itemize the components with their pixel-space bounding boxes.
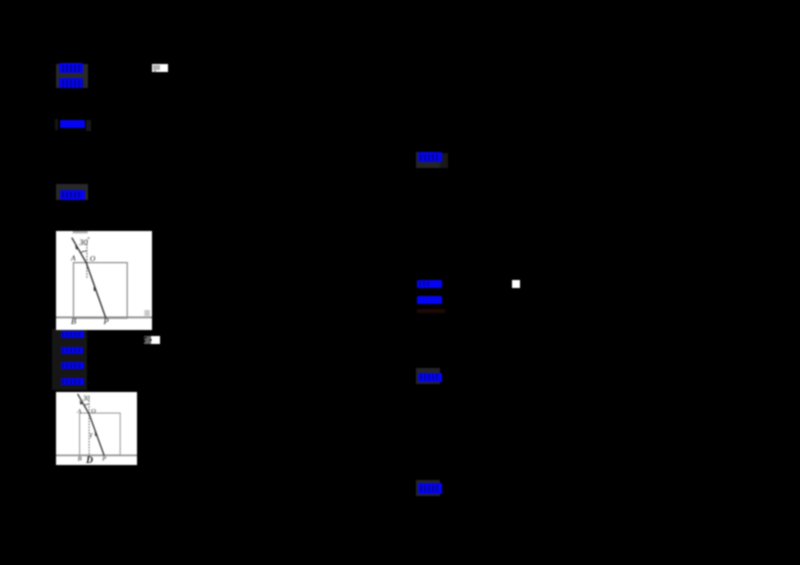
svg-text:A: A — [76, 407, 81, 414]
svg-text:P: P — [101, 455, 106, 462]
svg-text:D: D — [85, 456, 93, 466]
svg-text:O: O — [91, 407, 96, 414]
svg-text:30: 30 — [82, 395, 90, 402]
svg-text:γ: γ — [90, 430, 93, 438]
svg-text:O: O — [90, 254, 96, 263]
svg-text:A: A — [70, 254, 76, 263]
svg-text:P: P — [103, 316, 109, 326]
svg-text:B: B — [71, 316, 76, 326]
svg-text:B: B — [78, 455, 82, 462]
